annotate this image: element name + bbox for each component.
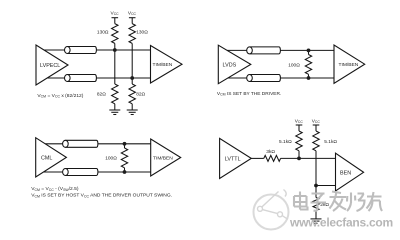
svg-text:BEN: BEN [340, 170, 351, 176]
svg-text:VCM IS SET BY HOST VCC AND THE: VCM IS SET BY HOST VCC AND THE DRIVER OU… [31, 193, 172, 199]
svg-text:3kΩ: 3kΩ [266, 149, 275, 155]
svg-text:100Ω: 100Ω [105, 155, 117, 161]
svg-text:VCC: VCC [295, 118, 304, 124]
svg-text:82Ω: 82Ω [97, 91, 106, 97]
svg-text:VCM IS SET BY THE DRIVER.: VCM IS SET BY THE DRIVER. [217, 91, 281, 97]
svg-text:TIM/BEN: TIM/BEN [153, 62, 173, 68]
svg-text:LVTTL: LVTTL [225, 156, 241, 162]
svg-text:5.1kΩ: 5.1kΩ [279, 139, 292, 145]
svg-text:82Ω: 82Ω [136, 91, 145, 97]
svg-text:VCM = VCC x (82/212): VCM = VCC x (82/212) [37, 93, 83, 99]
svg-text:VCC: VCC [312, 118, 321, 124]
svg-text:130Ω: 130Ω [136, 30, 148, 36]
svg-text:LVDS: LVDS [223, 62, 237, 68]
svg-text:100Ω: 100Ω [288, 62, 300, 68]
svg-text:5.1kΩ: 5.1kΩ [324, 139, 337, 145]
svg-text:www.elecfans.com: www.elecfans.com [289, 215, 393, 229]
svg-text:130Ω: 130Ω [97, 30, 109, 36]
svg-text:VCC: VCC [111, 10, 120, 16]
svg-text:VCM = VCC - (VSW/2.5): VCM = VCC - (VSW/2.5) [31, 186, 79, 192]
svg-text:VCC: VCC [128, 10, 137, 16]
svg-text:LVPECL: LVPECL [40, 63, 60, 69]
svg-text:CML: CML [41, 156, 52, 162]
svg-text:TIM/BEN: TIM/BEN [153, 156, 173, 162]
svg-text:TIM/BEN: TIM/BEN [339, 62, 359, 68]
